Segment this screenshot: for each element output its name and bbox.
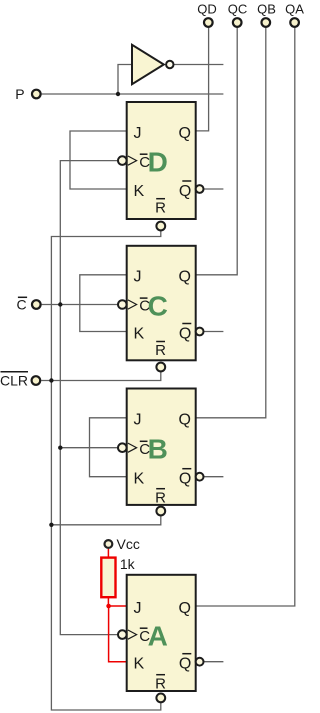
svg-text:1k: 1k [120, 556, 136, 572]
svg-text:Q: Q [179, 412, 191, 429]
svg-text:CLR: CLR [0, 373, 28, 389]
svg-text:QC: QC [228, 1, 248, 16]
svg-text:QD: QD [197, 1, 217, 16]
svg-text:Q: Q [179, 269, 191, 286]
svg-text:Q: Q [179, 325, 191, 342]
svg-text:K: K [134, 656, 145, 673]
svg-text:Q: Q [179, 125, 191, 142]
svg-text:R: R [155, 199, 166, 216]
svg-text:J: J [134, 600, 142, 617]
svg-text:QB: QB [257, 1, 276, 16]
svg-text:P: P [15, 86, 24, 102]
svg-text:K: K [134, 325, 145, 342]
svg-text:QA: QA [285, 1, 304, 16]
svg-text:J: J [134, 125, 142, 142]
svg-text:K: K [134, 183, 145, 200]
svg-text:Q: Q [179, 656, 191, 673]
svg-text:J: J [134, 269, 142, 286]
svg-text:R: R [155, 675, 166, 692]
svg-text:C: C [148, 290, 168, 321]
svg-text:Q: Q [179, 471, 191, 488]
svg-text:C: C [16, 297, 26, 313]
svg-text:D: D [148, 146, 168, 177]
svg-text:A: A [148, 620, 168, 651]
svg-text:J: J [134, 412, 142, 429]
svg-text:Q: Q [179, 183, 191, 200]
svg-text:B: B [148, 434, 168, 465]
svg-text:Q: Q [179, 600, 191, 617]
svg-text:Vcc: Vcc [117, 536, 140, 552]
svg-text:K: K [134, 471, 145, 488]
svg-text:R: R [155, 489, 166, 506]
svg-text:R: R [155, 342, 166, 359]
